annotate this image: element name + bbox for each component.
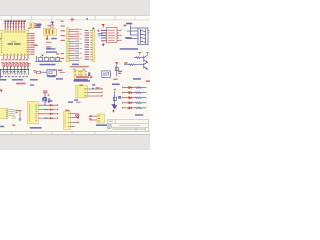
- sheet bottom reference band: [0, 132, 150, 135]
- header pin body marks: [5, 23, 25, 25]
- bottom left red labels: [118, 71, 122, 74]
- U6 pin wires: [71, 114, 79, 127]
- key K2 right pins: [85, 72, 87, 75]
- display header U4: [28, 101, 39, 124]
- ISP socket U7: [97, 114, 105, 123]
- serial wires: [126, 25, 138, 39]
- U2 left pin mark: [28, 28, 29, 29]
- U4 top wires: [42, 98, 46, 102]
- U3 left labels: [101, 30, 106, 41]
- U6 caption: [65, 110, 70, 111]
- C1 label: [48, 94, 50, 96]
- crystal circuit box Y1: [44, 29, 57, 36]
- buzzer transistor wire: [115, 65, 118, 76]
- U5 caption below: [74, 99, 78, 100]
- U4 top label: [48, 100, 52, 102]
- S1 red mark: [42, 55, 44, 57]
- LED red value labels: [5, 72, 20, 73]
- U2 pin labels: [34, 23, 41, 28]
- reset caption: [47, 76, 55, 77]
- small net labels mid: [92, 87, 100, 89]
- LED row E: [122, 107, 135, 109]
- reset circuit R10: [33, 70, 40, 73]
- U1 top pin numbers: [5, 31, 25, 32]
- U1 left pin entry blue wire: [0, 38, 2, 39]
- oscillator module U2: [30, 23, 34, 29]
- DB9 connector J1: [138, 28, 148, 45]
- left mid blue labels: [30, 79, 38, 86]
- sheet top reference band: [0, 15, 150, 19]
- designator text row: [1, 76, 28, 77]
- U3 right pin stubs: [117, 30, 119, 40]
- JP2 VCC flag: [92, 27, 94, 28]
- connector J2: [0, 108, 8, 118]
- speaker unit U6: [64, 111, 71, 129]
- xtal net labels: [34, 42, 51, 49]
- RS232 driver U3 MAX232: [107, 28, 118, 43]
- JP2 left net labels: [85, 30, 89, 60]
- crystal lead and pin: [46, 36, 48, 40]
- key K2: [80, 69, 85, 78]
- J2 right pin labels: [9, 109, 15, 116]
- U1 right pin stubs and labels: [29, 34, 31, 55]
- C1 wire down: [44, 93, 47, 106]
- RP1 net labels col1: [75, 29, 79, 61]
- keypad caption red: [70, 66, 89, 68]
- LED row D: [122, 102, 135, 104]
- reset button S5: [47, 70, 57, 76]
- buzzer circuit label: [88, 72, 90, 76]
- U6 lamp symbol: [76, 114, 79, 117]
- U7 VCC blue: [112, 105, 116, 108]
- J2 bottom blue label: [0, 126, 4, 128]
- header JP1 wire stubs to U1: [5, 27, 24, 30]
- LED row D1-D8: [3, 70, 27, 75]
- RP1 designator: [71, 18, 89, 22]
- power flag left: [0, 90, 2, 92]
- capacitor C1: [43, 91, 47, 93]
- U4 bottom caption: [30, 127, 42, 129]
- U6 blue label above: [68, 101, 73, 102]
- caption LED text: [0, 79, 26, 84]
- reset wires: [34, 71, 47, 73]
- sheet size blue label: [135, 114, 143, 115]
- relay VCC mark: [138, 53, 141, 55]
- LED row B: [122, 92, 135, 94]
- U7 red gnd: [112, 110, 114, 113]
- RP1 internal pin numbers: [68, 29, 69, 59]
- U5 caption above: [76, 76, 89, 78]
- transistor Q2: [144, 62, 148, 69]
- J2 power mark: [19, 111, 22, 113]
- U1 bottom pin stubs: [4, 56, 28, 58]
- keypad left net label: [58, 70, 65, 73]
- U3 left edge pin circles: [106, 30, 107, 41]
- RP1 net labels col2: [80, 29, 82, 59]
- power module U5: [76, 85, 88, 97]
- junction dots: [3, 69, 29, 70]
- power cap branch: [113, 91, 117, 109]
- header JP1 labels: [4, 21, 25, 23]
- LED row A: [122, 86, 135, 88]
- U1 bottom pin numbers: [3, 54, 28, 55]
- title block text: [108, 121, 145, 130]
- sheet interior: [0, 20, 150, 131]
- XTAL2 label: [51, 38, 57, 40]
- U4 row 1: [38, 104, 58, 106]
- U4 row 3: [38, 113, 58, 115]
- U1 right inside pin numbers: [27, 33, 29, 52]
- transistor Q1: [144, 53, 148, 62]
- buttons designator: [56, 53, 59, 54]
- C1 blue side label: [48, 99, 51, 103]
- keypad caption blue: [74, 79, 88, 81]
- J2 ground wire: [18, 113, 21, 121]
- U3 ground: [102, 43, 105, 47]
- relay caption: [120, 48, 138, 50]
- right LED group caption: [133, 78, 150, 82]
- Q2 base resistor: [124, 64, 144, 66]
- resistor network RP1: [66, 28, 69, 62]
- left scattered net labels: [61, 21, 65, 59]
- JP2 left pin stubs: [90, 31, 92, 60]
- resistor R9: [47, 25, 53, 27]
- U3 top power marks: [102, 24, 105, 27]
- U4 row 2: [38, 109, 58, 111]
- LED row C: [122, 97, 135, 99]
- pin header JP2: [92, 29, 94, 61]
- key K1 right pins: [79, 72, 81, 75]
- mid captions: [56, 78, 120, 85]
- U7 left wires: [91, 115, 97, 120]
- port3 blue labels: [46, 48, 57, 53]
- bottom red mark: [12, 125, 15, 126]
- VCC bus wire: [0, 69, 28, 78]
- U4 row 4: [38, 117, 58, 119]
- buttons caption: [40, 64, 56, 66]
- net label row 2: [1, 62, 31, 64]
- buzzer BZ1: [102, 71, 111, 77]
- right red marks near U6: [89, 116, 92, 120]
- serial label2: [125, 37, 132, 38]
- title block: [107, 120, 148, 132]
- RP1 right pin stubs: [69, 29, 75, 60]
- resistor row R1-R8: [3, 64, 29, 67]
- buttons S1-S4: [35, 56, 62, 61]
- XTAL labels blue: [36, 24, 42, 28]
- serial port label: [124, 23, 133, 27]
- U7 blue caption: [96, 124, 107, 126]
- right mid blue label: [118, 96, 121, 99]
- VCC flag blue: [51, 22, 54, 25]
- canvas background grey: [0, 0, 150, 150]
- U1 left inside pin numbers: [1, 33, 2, 53]
- net label row P0.x: [1, 59, 28, 60]
- RP1 bottom caption: [72, 64, 79, 66]
- Q2 base label: [124, 62, 128, 63]
- U5 right wires: [87, 88, 102, 96]
- J1 right tiny pins: [148, 30, 150, 33]
- JP2 right marks: [97, 30, 102, 37]
- J2 aux part: [13, 117, 16, 119]
- MCU U1 AT89C51 body: [0, 30, 29, 56]
- key K1: [73, 69, 79, 78]
- right small red label: [114, 79, 118, 80]
- Q1 base resistor: [134, 57, 144, 59]
- header JP1 pins: [5, 23, 24, 27]
- resistor bottom leads: [4, 67, 28, 70]
- J2 red net labels: [15, 110, 18, 113]
- buzzer VCC: [115, 63, 118, 65]
